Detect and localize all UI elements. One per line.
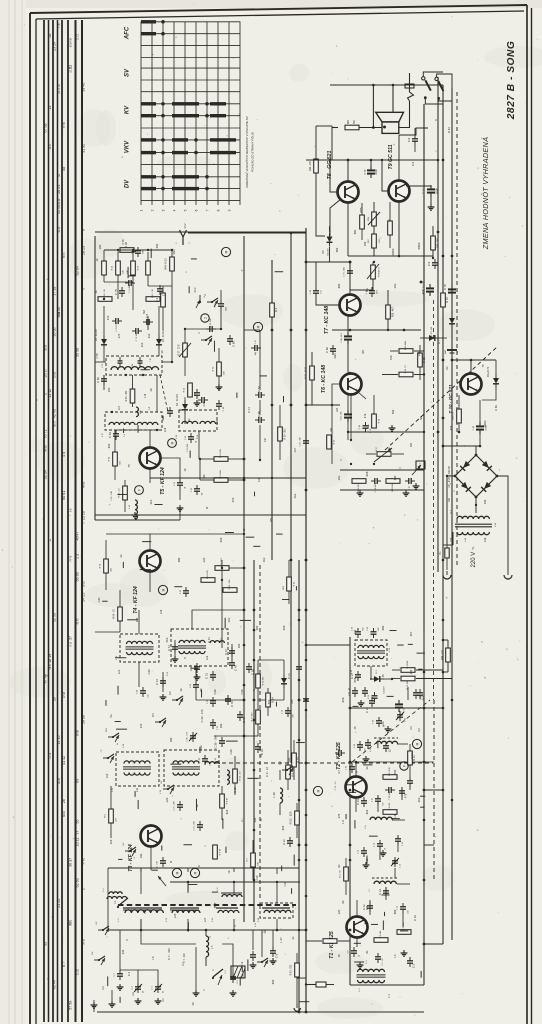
svg-text:52 53: 52 53 [53, 613, 57, 622]
cap C60 [325, 345, 336, 355]
circled M3 [168, 439, 177, 448]
svg-text:M: M [171, 441, 175, 444]
right rail x443 [442, 85, 444, 944]
label cluster t3 [233, 767, 269, 822]
capacitor C27-45 [349, 687, 359, 697]
svg-text:L 18: L 18 [145, 393, 147, 398]
capacitor C2 [114, 970, 124, 980]
svg-text:1M: 1M [255, 352, 257, 355]
switch KV a [161, 780, 174, 797]
capacitor C45 680 [367, 626, 380, 638]
svg-text:9: 9 [228, 209, 232, 211]
svg-text:C 23 - 4,7: C 23 - 4,7 [339, 742, 341, 752]
switch am3 [257, 958, 268, 967]
svg-text:M: M [176, 871, 180, 874]
resistor R22-1K2 [352, 479, 366, 492]
wire t6a [306, 330, 421, 464]
svg-text:43 44: 43 44 [53, 980, 57, 989]
ecap C34 [395, 700, 406, 712]
title 2827 B - SONG [506, 41, 517, 121]
antenna input plug [300, 980, 334, 987]
AM coil pair b [217, 887, 242, 897]
cap C35b [246, 663, 255, 675]
resistor R10 15K [383, 767, 397, 780]
bus wire x424 upper [423, 104, 425, 630]
speaker [376, 112, 404, 133]
resistor R3-82 [340, 858, 349, 895]
resistor R24 10K [200, 449, 244, 462]
svg-text:36 37: 36 37 [69, 858, 73, 867]
AM wires top [108, 868, 299, 930]
bus junction dots [243, 159, 454, 1014]
svg-text:5: 5 [184, 209, 188, 211]
capacitor C59 M5 [300, 435, 336, 449]
svg-text:64 65: 64 65 [83, 481, 86, 488]
svg-text:C 43: C 43 [234, 665, 238, 671]
svg-text:8: 8 [217, 209, 221, 211]
svg-text:C 78: C 78 [365, 169, 367, 174]
svg-text:1: 1 [140, 209, 144, 211]
bus wire x254 [253, 560, 255, 922]
svg-text:C 59 - M6: C 59 - M6 [300, 437, 302, 447]
svg-text:C 7 7: C 7 7 [423, 188, 425, 194]
ruler numerals 2 [44, 23, 86, 1009]
svg-text:46 47: 46 47 [76, 531, 80, 540]
svg-text:R 1 680: R 1 680 [380, 930, 382, 938]
diode D6 [482, 360, 499, 400]
resistor R34 7J7 [382, 364, 425, 377]
labels mid2 [165, 637, 256, 691]
resistor R30-470 [453, 395, 462, 432]
bus dashed x260 [259, 565, 261, 900]
capacitor C61-4.7 [359, 422, 372, 433]
coil L24 [136, 407, 142, 417]
gnd t6row [357, 425, 410, 496]
svg-text:F: F [403, 765, 407, 767]
switch stub AFC2 [203, 294, 218, 307]
svg-text:C 18 - 22K: C 18 - 22K [194, 821, 196, 831]
cap C64 mid [296, 663, 309, 705]
svg-text:21 22: 21 22 [57, 899, 61, 908]
T5 wires [115, 430, 180, 500]
resistor R43 40K [127, 261, 140, 275]
svg-text:VKV: VKV [106, 727, 108, 732]
coil L33 [129, 500, 137, 519]
mains plug left [443, 571, 451, 579]
wire am verticals [120, 930, 256, 983]
resistor R44-M33 [166, 250, 175, 286]
resistor R25 10K [213, 348, 226, 390]
mid junctions [184, 236, 245, 481]
svg-text:49 50: 49 50 [45, 445, 48, 452]
svg-text:35 36: 35 36 [53, 327, 57, 336]
switch KV 5 [101, 749, 114, 763]
label T1 [329, 931, 335, 959]
wire y534 [162, 533, 245, 535]
cap C66 [255, 411, 265, 423]
capacitor C49 10K [206, 318, 216, 332]
svg-text:KV: KV [168, 691, 172, 695]
capacitor C74 5M [125, 280, 135, 293]
matrix column numbers [140, 209, 232, 211]
svg-text:C 27 - 45: C 27 - 45 [349, 687, 351, 696]
FM box frame [95, 232, 306, 515]
svg-text:R 41 - 1K: R 41 - 1K [152, 288, 154, 297]
transistor T6 [341, 374, 362, 395]
svg-text:59 60: 59 60 [82, 715, 86, 724]
res R39 [146, 252, 151, 286]
switch stub DV mid [151, 713, 166, 727]
capacitor C44 2K2 [190, 681, 203, 692]
capacitor C55 6K [191, 485, 204, 495]
svg-text:33 34: 33 34 [58, 226, 61, 233]
svg-text:26: 26 [62, 799, 66, 803]
switch KV 1 [96, 921, 109, 938]
svg-text:R 5 1K: R 5 1K [220, 848, 222, 855]
svg-text:9: 9 [82, 229, 86, 231]
svg-text:77 78: 77 78 [63, 122, 66, 129]
transistor T8 [338, 182, 359, 203]
svg-text:C 49 10K: C 49 10K [210, 318, 212, 327]
junction dots T6 [350, 329, 405, 465]
resistor R18 22K [201, 570, 215, 583]
cap s7 [362, 902, 373, 912]
svg-text:19 20: 19 20 [83, 581, 86, 588]
resistor R53-820 [291, 953, 301, 1011]
svg-text:42 43: 42 43 [53, 409, 57, 418]
svg-text:4 5: 4 5 [62, 452, 66, 457]
wire am7 [112, 930, 262, 1001]
svg-text:VKV: VKV [184, 223, 187, 228]
mains transformer Tr1 [451, 509, 497, 545]
switch matrix contacts [141, 20, 236, 190]
bus wire x291 [290, 233, 292, 763]
gang dashed link [160, 375, 168, 412]
left margin streaks [9, 0, 22, 1024]
capacitor C16 1K [174, 479, 187, 489]
svg-text:C 52 - 21K: C 52 - 21K [111, 490, 113, 501]
svg-text:47 48: 47 48 [44, 674, 48, 683]
label C7-330 [184, 953, 186, 963]
capacitor C9 [230, 973, 239, 984]
transistor T1 [347, 917, 368, 938]
coil L9 [227, 770, 232, 784]
svg-text:C 71 310: C 71 310 [136, 332, 138, 341]
capacitor C62 5G [310, 287, 323, 297]
transistor T5 [140, 448, 161, 469]
svg-text:37: 37 [69, 636, 73, 640]
svg-text:29 30: 29 30 [58, 198, 61, 205]
svg-text:C 33: C 33 [230, 701, 234, 707]
capacitor C13-10K [157, 857, 167, 871]
circled M1 [172, 868, 181, 877]
tuner wires upper [95, 232, 172, 362]
svg-text:C 31: C 31 [205, 673, 209, 679]
svg-text:R38 - 4K7: R38 - 4K7 [393, 306, 395, 317]
wire am y930 [108, 919, 306, 930]
svg-text:33 34: 33 34 [44, 470, 48, 479]
cap C11b [282, 837, 293, 847]
fm dots2 [111, 374, 158, 431]
capacitor C21 470 [372, 795, 385, 806]
cap C41b [167, 643, 178, 653]
svg-text:C 13 - 10K: C 13 - 10K [157, 861, 159, 871]
wire fm2 [104, 316, 163, 390]
cap s3 [383, 742, 392, 753]
svg-text:SV: SV [125, 68, 131, 77]
gnd mid2 [160, 656, 201, 700]
svg-text:AFC: AFC [125, 26, 131, 40]
AM coil row L43 [258, 908, 291, 922]
capacitor C76 10K [132, 247, 145, 257]
capacitor C40-100 [137, 687, 150, 698]
svg-text:3: 3 [162, 209, 166, 211]
capacitor C38 [207, 697, 216, 707]
trimmer C24 [396, 711, 407, 722]
ecap C73 [422, 281, 457, 328]
svg-text:31 32: 31 32 [82, 144, 86, 153]
capacitor C23-4.7 [335, 742, 345, 756]
svg-text:24 25: 24 25 [82, 593, 86, 602]
labels mid [247, 407, 297, 453]
resistor R33-M33 [306, 352, 341, 405]
wire T7 base [316, 262, 339, 305]
svg-text:49 50: 49 50 [57, 307, 61, 316]
svg-text:44 45: 44 45 [57, 205, 61, 214]
switch DV stub [123, 842, 136, 859]
svg-text:T7 - KC 148: T7 - KC 148 [324, 306, 330, 334]
capacitor C33 180 [199, 755, 212, 766]
resistor R44-100 [442, 640, 450, 672]
heavy dashed gang line [118, 904, 296, 906]
svg-text:70 71: 70 71 [63, 252, 66, 259]
AM coil pair a [103, 888, 127, 899]
svg-text:10 11: 10 11 [76, 838, 80, 847]
svg-text:DV: DV [125, 179, 131, 188]
svg-text:DV: DV [151, 713, 155, 717]
svg-text:11 12: 11 12 [48, 389, 52, 398]
wire y660 [196, 700, 244, 736]
cap C37 [350, 671, 361, 681]
svg-text:D6+22 74: D6+22 74 [488, 366, 490, 377]
svg-text:T5 - KF 124: T5 - KF 124 [160, 467, 166, 495]
diode D1A [281, 660, 291, 700]
svg-text:7 8: 7 8 [57, 23, 61, 28]
capacitor C32b [225, 695, 234, 707]
wire t7 row [332, 329, 421, 332]
svg-text:R 53 - 820: R 53 - 820 [291, 964, 293, 975]
svg-text:69: 69 [76, 779, 80, 783]
svg-text:10K: 10K [123, 270, 125, 274]
svg-text:8: 8 [205, 845, 207, 846]
cap C25b [365, 739, 371, 749]
svg-text:KV: KV [125, 105, 131, 114]
resistor R49-150 [310, 126, 332, 236]
capacitor C6 16 [348, 947, 361, 957]
resistor R20-22 [119, 480, 128, 512]
capacitor C18-22K [194, 821, 204, 831]
svg-text:2827 B - SONG: 2827 B - SONG [506, 41, 517, 121]
svg-text:C 5 - 82: C 5 - 82 [382, 958, 384, 966]
capacitor C57 [405, 478, 419, 490]
svg-text:500M: 500M [437, 188, 439, 194]
capacitor C19 47K [282, 707, 295, 718]
svg-text:55 56: 55 56 [76, 348, 80, 357]
svg-text:C 16 - 22K: C 16 - 22K [174, 801, 176, 811]
svg-text:14 15: 14 15 [57, 735, 61, 744]
resistor R6 220 [105, 786, 118, 838]
svg-text:74 75: 74 75 [70, 555, 73, 562]
resistor R46-390 [431, 226, 440, 259]
right dashed rail x457 [456, 92, 458, 568]
svg-text:55: 55 [76, 820, 80, 824]
circ f2 [400, 762, 408, 770]
res R32 [155, 286, 165, 320]
svg-text:2: 2 [151, 209, 155, 211]
resistor R22 56K [184, 383, 197, 397]
resistor R60-560 [332, 119, 382, 130]
resistor R16-5K6 [223, 579, 237, 593]
svg-text:C 19 - 3,3: C 19 - 3,3 [335, 781, 337, 791]
IF strip frame [350, 630, 424, 985]
svg-text:R 3 - 82: R 3 - 82 [340, 869, 342, 877]
AM coil row L41 [212, 908, 239, 922]
fuse Po [440, 545, 449, 570]
svg-text:60 61: 60 61 [63, 810, 66, 817]
switch VKV 5a [106, 727, 119, 745]
svg-text:C 74 5M: C 74 5M [129, 285, 131, 293]
cap C50 [96, 375, 107, 385]
wire amp base [329, 159, 388, 192]
output switch contacts [422, 72, 452, 104]
IF out transformer L4 [350, 969, 400, 991]
junction dots T7 [349, 261, 422, 374]
svg-text:M: M [257, 325, 261, 328]
fm ladder wires [95, 249, 173, 363]
wire T7 collector [325, 261, 351, 294]
cap s2 [417, 689, 426, 700]
speaker top lead [372, 84, 414, 129]
capacitor C14 10 [374, 840, 387, 850]
svg-text:C 40 1M: C 40 1M [187, 444, 189, 452]
svg-text:F: F [138, 489, 142, 491]
switch stub DV4 [278, 761, 293, 775]
svg-text:R 29 - 2K2: R 29 - 2K2 [285, 428, 287, 439]
svg-text:28 29: 28 29 [82, 246, 86, 255]
svg-text:C 88: C 88 [132, 364, 134, 368]
bridge wires [443, 446, 508, 568]
res R55 [360, 203, 365, 240]
am y930 dots [140, 929, 279, 932]
transistor T3 [141, 826, 162, 847]
cap C64a [143, 313, 153, 325]
IF can T4b [167, 629, 228, 676]
svg-text:R49 - 150: R49 - 150 [310, 160, 312, 171]
labels fm1 [95, 258, 153, 391]
svg-text:40K: 40K [258, 862, 260, 866]
IF can T3a [112, 743, 159, 792]
cap C69 [227, 335, 236, 347]
label C19-3.3 [335, 781, 337, 791]
svg-text:51: 51 [69, 65, 73, 69]
resistor R29-2K2 [278, 405, 287, 460]
svg-text:AFC: AFC [194, 287, 197, 292]
gnd t5 [132, 505, 184, 518]
svg-text:R 24 10K: R 24 10K [220, 449, 222, 458]
label C52-21K [111, 490, 113, 501]
IF can T4a [116, 634, 159, 662]
resistor R57-150 [348, 226, 381, 256]
wire T6 base [332, 384, 340, 405]
svg-text:R 34 7J7: R 34 7J7 [405, 364, 407, 373]
ground am5 [193, 978, 200, 996]
resistor R23-680 [386, 479, 400, 492]
wires T4 cans [120, 572, 244, 700]
resistor R35 820 [109, 430, 122, 480]
capacitor C36 6K8 [413, 689, 423, 700]
svg-text:T9 GC 511: T9 GC 511 [388, 144, 394, 169]
svg-text:70 71: 70 71 [44, 429, 48, 438]
svg-text:16 17 18: 16 17 18 [58, 84, 61, 94]
svg-text:53 54 55: 53 54 55 [70, 37, 73, 47]
svg-text:M: M [225, 250, 229, 253]
svg-text:39 40: 39 40 [82, 83, 86, 92]
loop joins [442, 639, 448, 792]
bus wire x244 [243, 236, 245, 922]
svg-text:63 64: 63 64 [76, 266, 80, 275]
svg-text:20 21: 20 21 [57, 185, 61, 194]
switch lever am2 [117, 898, 128, 908]
capacitor C20 33 [346, 763, 359, 773]
labels strip [341, 697, 421, 998]
diode D8 [306, 226, 333, 262]
capacitor C45 caps [180, 587, 189, 597]
labels amp [353, 161, 415, 234]
capacitor C16-22K [174, 801, 184, 811]
wire mid drops [222, 660, 288, 820]
capacitor C77 500M [423, 185, 439, 210]
wire T8 emitter [330, 199, 348, 256]
res R38a [120, 242, 134, 253]
resistor R8-1K [220, 786, 229, 820]
label T3 [128, 844, 134, 872]
T1 wires [357, 900, 397, 947]
resistor R2 12K [397, 922, 411, 934]
wire y478 [150, 477, 306, 479]
coil L28 [272, 770, 283, 815]
switch stub KV mid [168, 691, 183, 705]
diode D4 [95, 328, 107, 349]
cap s1 [362, 687, 375, 713]
resistor R30-5K6 [283, 560, 296, 604]
svg-text:R 23 680: R 23 680 [392, 482, 394, 491]
res R45b [102, 250, 107, 282]
svg-text:C 70 270: C 70 270 [116, 322, 118, 331]
labels misc T3 [205, 818, 244, 847]
capacitor C1 32 [152, 983, 165, 993]
top rail y85 [330, 84, 443, 86]
gnd am6 [91, 984, 124, 1008]
svg-text:~: ~ [449, 483, 453, 485]
svg-text:M: M [317, 789, 321, 792]
svg-text:5 G: 5 G [321, 290, 323, 294]
svg-text:R 14: R 14 [271, 697, 275, 703]
svg-text:38 39: 38 39 [58, 777, 61, 784]
svg-text:1: 1 [107, 936, 109, 937]
caps between cans [166, 407, 173, 417]
label T10 [448, 384, 453, 414]
label jumble 1 [200, 709, 223, 728]
